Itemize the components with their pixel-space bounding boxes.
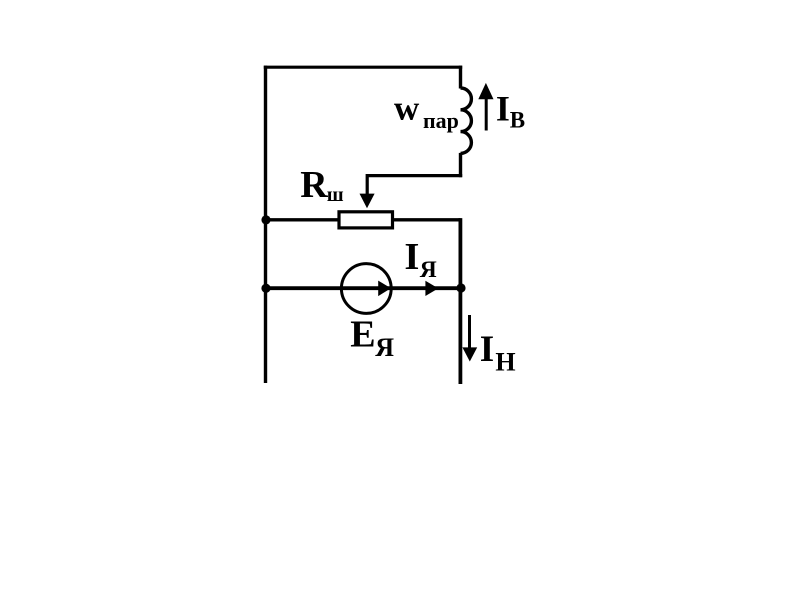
source EYa circle [341, 264, 391, 314]
junction dot left-middle [261, 215, 270, 224]
arrow IH head [462, 347, 477, 361]
junction dot left-lower [261, 284, 270, 293]
wire right vertical [458, 218, 462, 384]
junction dot right-lower [456, 283, 465, 292]
svg-text:В: В [510, 107, 525, 132]
svg-text:пар: пар [423, 108, 459, 133]
arrow IB head [478, 83, 493, 99]
wire wiper horizontal [366, 174, 462, 177]
wire left vertical [264, 66, 267, 383]
svg-text:I: I [496, 89, 510, 129]
svg-text:Я: Я [375, 333, 394, 362]
arrowhead inside source [378, 281, 391, 297]
wire middle horizontal [264, 218, 461, 221]
svg-text:ш: ш [327, 184, 344, 206]
inductor Wpar coil (3 arcs) [461, 88, 472, 153]
wire right top drop [459, 66, 462, 89]
svg-text:Я: Я [420, 257, 437, 283]
svg-text:w: w [394, 88, 420, 127]
arrow IB shaft [485, 99, 488, 131]
svg-text:E: E [350, 313, 375, 355]
wire below coil [459, 153, 462, 177]
arrowhead on wire IYa [425, 281, 438, 296]
svg-text:Н: Н [495, 348, 515, 377]
svg-text:R: R [300, 164, 328, 206]
arrow IH shaft [468, 315, 471, 350]
wire top horizontal [264, 66, 462, 69]
svg-text:I: I [480, 329, 494, 370]
wiper arrowhead onto resistor [360, 194, 375, 209]
wire wiper vertical [366, 174, 369, 196]
wire lower horizontal [264, 286, 461, 290]
svg-text:I: I [404, 236, 419, 278]
resistor Rsh body [339, 212, 393, 228]
